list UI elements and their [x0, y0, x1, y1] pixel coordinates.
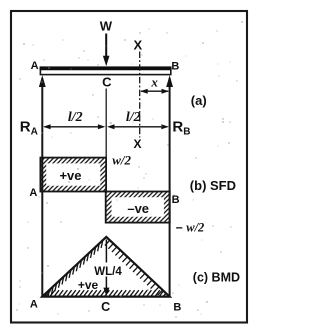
svg-text:RA: RA	[20, 118, 38, 137]
svg-text:WL/4: WL/4	[94, 266, 122, 278]
svg-text:(a): (a)	[191, 93, 207, 108]
svg-text:–ve: –ve	[127, 201, 149, 216]
svg-text:C: C	[102, 75, 112, 90]
svg-text:A: A	[31, 60, 39, 72]
svg-text:X: X	[133, 137, 141, 151]
svg-text:l/2: l/2	[68, 110, 83, 125]
svg-text:x: x	[150, 74, 158, 89]
svg-text:B: B	[171, 61, 179, 73]
svg-text:l/2: l/2	[126, 110, 141, 125]
svg-text:A: A	[29, 187, 37, 199]
svg-text:RB: RB	[172, 119, 190, 138]
svg-text:A: A	[30, 299, 38, 311]
svg-text:– w/2: – w/2	[176, 221, 205, 235]
svg-text:W: W	[100, 18, 113, 33]
svg-text:(b) SFD: (b) SFD	[190, 178, 236, 193]
svg-text:X: X	[133, 38, 142, 53]
svg-text:C: C	[101, 300, 110, 314]
svg-text:(c) BMD: (c) BMD	[193, 270, 240, 284]
svg-text:+ve: +ve	[78, 278, 99, 292]
svg-text:B: B	[172, 194, 180, 206]
svg-text:B: B	[173, 302, 181, 314]
svg-text:+ve: +ve	[59, 168, 81, 183]
svg-text:w/2: w/2	[112, 152, 131, 167]
